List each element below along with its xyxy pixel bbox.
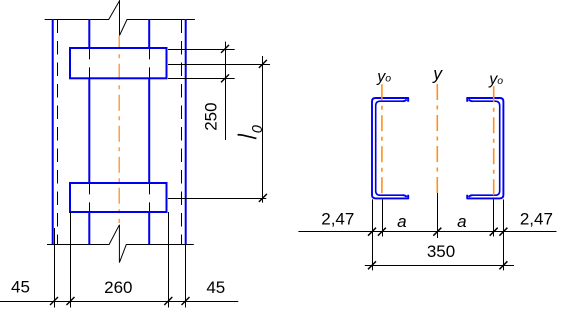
bottom extension line at batten right edge — [168, 212, 170, 308]
orange centerline y0 right — [493, 86, 495, 196]
tick 45/260 — [67, 297, 75, 305]
svg-text:y: y — [432, 64, 443, 84]
left hidden web line (dashed) — [57, 20, 59, 245]
svg-text:250: 250 — [202, 102, 221, 130]
left flange tip line (blue, interrupted by battens) — [88, 19, 90, 244]
right channel outer contour — [467, 98, 504, 198]
right flange tip line (blue, interrupted by battens) — [148, 19, 150, 244]
bottom extension line at upper batten left edge — [70, 212, 72, 308]
lower section dimension line (350) — [365, 265, 514, 267]
extension line: lower batten centre — [168, 198, 266, 200]
bottom extension line at left web face — [54, 228, 56, 308]
svg-text:45: 45 — [206, 278, 225, 297]
right channel bottom flange tip — [467, 195, 473, 199]
orange column centerline (elevation) — [118, 36, 120, 223]
section extension line: y centre — [437, 193, 439, 238]
section extension line: y0 right — [493, 199, 495, 236]
upper batten plate — [70, 48, 167, 78]
hidden flange tip behind lower batten (dashed) — [90, 184, 150, 212]
right channel top flange tip — [467, 98, 473, 102]
top break line — [45, 1, 195, 36]
orange centerline y — [436, 84, 438, 193]
svg-text:a: a — [457, 212, 466, 231]
orange centerline y0 left — [381, 84, 383, 196]
svg-text:260: 260 — [104, 278, 132, 297]
left channel inner contour — [376, 101, 403, 195]
svg-text:45: 45 — [11, 278, 30, 297]
hidden flange tip behind upper batten (dashed) — [90, 49, 150, 78]
left channel top flange tip — [403, 98, 409, 102]
extension line: upper batten bottom — [168, 78, 235, 80]
right channel inner contour — [473, 101, 500, 195]
svg-text:350: 350 — [427, 242, 455, 261]
tick 350 right — [499, 261, 507, 269]
svg-text:a: a — [397, 212, 406, 231]
bottom extension line at right web face — [185, 245, 187, 308]
dimension line l0 (batten spacing) — [262, 56, 264, 203]
tick 2,47 right — [499, 228, 507, 236]
dimension text l0 — [238, 135, 257, 139]
right channel outer web edge (blue) — [185, 19, 187, 244]
section extension line: y0 left — [382, 199, 384, 236]
section extension line: left web face — [372, 199, 374, 270]
tick 350 left — [368, 261, 376, 269]
section extension line: right web face — [503, 199, 505, 270]
tick l0 top — [259, 60, 267, 68]
tick a left — [378, 228, 386, 236]
left channel bottom flange tip — [403, 195, 409, 199]
upper section dimension line — [298, 231, 556, 233]
tick l0 bottom — [259, 194, 267, 202]
tick 260/45 — [164, 297, 172, 305]
bottom dimension line — [0, 301, 238, 303]
dimension line 250 (batten width) — [225, 42, 227, 140]
extension line: upper batten top — [168, 49, 235, 51]
right hidden web line (dashed) — [181, 20, 183, 245]
tick a right — [490, 228, 498, 236]
svg-text:yo: yo — [376, 69, 391, 86]
svg-text:0: 0 — [250, 125, 266, 133]
tick centre — [433, 228, 441, 236]
lower batten plate — [70, 183, 167, 212]
svg-text:2,47: 2,47 — [520, 210, 553, 229]
tick 45 right — [182, 297, 190, 305]
tick 45 left a — [50, 297, 58, 305]
extension line: upper batten centre — [168, 64, 270, 66]
tick 2,47 left — [368, 228, 376, 236]
left channel outer web edge (blue) — [52, 19, 54, 244]
tick 250 bottom — [221, 74, 229, 82]
tick 250 top — [221, 45, 229, 53]
svg-text:2,47: 2,47 — [321, 210, 354, 229]
left channel outer contour — [372, 98, 409, 198]
bottom break line — [47, 225, 194, 263]
svg-text:yo: yo — [488, 71, 503, 88]
